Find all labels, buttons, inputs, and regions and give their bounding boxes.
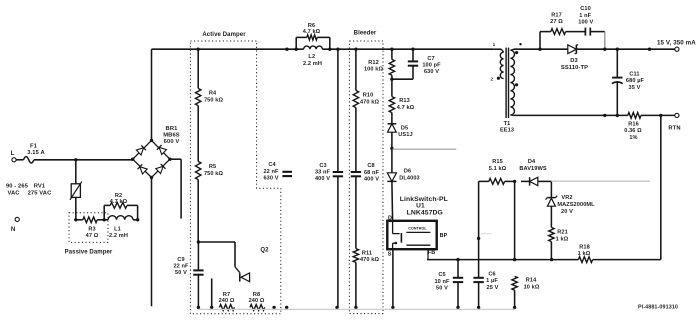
svg-text:LNK457DG: LNK457DG: [407, 210, 443, 217]
svg-text:R15: R15: [492, 159, 503, 165]
svg-text:22 nF: 22 nF: [263, 169, 279, 175]
svg-text:RV1: RV1: [34, 184, 46, 190]
resistor R21 1 k: [549, 206, 569, 259]
svg-text:MB6S: MB6S: [163, 132, 180, 138]
varistor RV1 275 VAC: [28, 160, 82, 220]
svg-text:EE13: EE13: [500, 128, 514, 134]
svg-text:25 V: 25 V: [487, 285, 499, 291]
svg-text:470 kΩ: 470 kΩ: [360, 100, 379, 106]
node RV1 to damper: [74, 218, 77, 221]
svg-text:5.1 kΩ: 5.1 kΩ: [489, 166, 507, 172]
svg-text:C8: C8: [367, 163, 374, 169]
pin label FB: [428, 250, 435, 256]
svg-text:50 V: 50 V: [175, 270, 187, 276]
pin label S: [388, 251, 392, 257]
transistor Q2: [198, 242, 269, 282]
svg-text:R16: R16: [628, 121, 639, 127]
resistor R6 4.7 k (parallel L2): [296, 23, 330, 49]
active damper dashed box: [190, 41, 280, 314]
svg-text:MAZS2000ML: MAZS2000ML: [557, 202, 595, 208]
resistor R2 4.7 k (parallel L1): [104, 193, 137, 220]
capacitor C11 680 uF 35 V: [612, 49, 645, 115]
svg-text:240 Ω: 240 Ω: [249, 298, 265, 304]
op-amp U1 LinkSwitch-PL IC body: [387, 221, 436, 249]
svg-text:20 V: 20 V: [561, 209, 573, 215]
node R15/D4 junction: [513, 180, 516, 260]
label Passive Damper: [65, 250, 113, 256]
drain net faint wire: [392, 148, 456, 150]
node FB/R14: [513, 258, 516, 261]
svg-text:100 kΩ: 100 kΩ: [364, 67, 383, 73]
svg-text:R6: R6: [308, 23, 315, 29]
capacitor C4 22 nF 630 V: [263, 162, 292, 181]
wire stub below Q2: [210, 278, 213, 309]
svg-text:C11: C11: [629, 71, 639, 77]
svg-text:RTN: RTN: [668, 126, 680, 132]
node rail/C7: [411, 48, 414, 51]
node rail/C3: [336, 48, 339, 51]
wire bridge bottom down: [151, 177, 153, 306]
label input voltage range: [6, 184, 29, 197]
node C9 to ground rail: [197, 306, 200, 309]
snubber R17 27 ohm + C10 1 nF: [540, 6, 605, 49]
svg-text:CONTROL: CONTROL: [408, 226, 427, 230]
svg-text:R13: R13: [399, 98, 410, 104]
resistor R7 240 ohm (in source return rail): [219, 292, 235, 311]
diode D5 US1J (clamp, pointing up): [388, 113, 413, 149]
drawing number: [638, 304, 678, 310]
node C4 bottom: [285, 306, 288, 309]
svg-text:R7: R7: [223, 292, 230, 298]
svg-text:10 nF: 10 nF: [434, 279, 450, 285]
terminal L (line input): [11, 150, 16, 162]
svg-text:DL4003: DL4003: [399, 175, 420, 181]
svg-text:R18: R18: [579, 244, 590, 250]
svg-text:1%: 1%: [629, 135, 637, 141]
capacitor C9 22 nF: [173, 242, 203, 307]
svg-text:C3: C3: [319, 163, 326, 169]
svg-text:3.15 A: 3.15 A: [27, 150, 45, 156]
node return/C11 area: [603, 114, 619, 117]
svg-text:27 Ω: 27 Ω: [550, 19, 563, 25]
svg-text:2.2 mH: 2.2 mH: [303, 61, 322, 67]
wire source pin down: [391, 249, 394, 309]
node rail/R6 right: [328, 48, 331, 51]
svg-text:R17: R17: [551, 13, 562, 19]
terminal RTN: [668, 113, 680, 131]
wire output sense drop: [660, 115, 662, 259]
svg-text:L: L: [11, 150, 15, 157]
resistor R11 470 k (bleeder): [353, 249, 379, 309]
svg-text:33 nF: 33 nF: [315, 169, 331, 175]
svg-text:240 Ω: 240 Ω: [219, 298, 235, 304]
svg-text:1 nF: 1 nF: [579, 13, 591, 19]
output return rail: [514, 114, 675, 116]
node rail/R4: [197, 48, 200, 51]
svg-text:R5: R5: [209, 164, 216, 170]
node FB/C5: [456, 258, 459, 261]
svg-text:600 V: 600 V: [164, 139, 180, 145]
svg-text:1: 1: [493, 42, 496, 47]
node junction at RV1 tap: [74, 158, 77, 161]
node R21/FB: [550, 258, 553, 261]
resistor R18 1 k (in FB line): [578, 244, 593, 262]
capacitor C5 10 nF 50 V: [434, 260, 463, 309]
svg-text:400 V: 400 V: [315, 176, 330, 182]
svg-text:BAV19WS: BAV19WS: [519, 166, 546, 172]
svg-text:2.2 mH: 2.2 mH: [109, 233, 128, 239]
svg-text:1 kΩ: 1 kΩ: [578, 251, 591, 257]
svg-text:35 V: 35 V: [629, 85, 641, 91]
svg-text:Active Damper: Active Damper: [202, 32, 246, 38]
node output rail: [648, 48, 651, 51]
svg-text:R12: R12: [368, 60, 379, 66]
label R12 100 k: [364, 60, 383, 73]
svg-text:U1: U1: [416, 203, 425, 210]
terminal N (neutral input): [11, 217, 19, 233]
svg-text:VAC: VAC: [7, 190, 20, 196]
resistor R12 100 k (clamp): [389, 49, 394, 75]
svg-text:R8: R8: [253, 292, 260, 298]
svg-text:L2: L2: [308, 54, 315, 60]
svg-text:4.7 kΩ: 4.7 kΩ: [397, 105, 415, 111]
svg-text:1 kΩ: 1 kΩ: [556, 236, 569, 242]
node rail/C4: [285, 48, 288, 51]
node rail/R12: [390, 48, 393, 51]
resistor R3 47 ohm (damper): [76, 217, 104, 239]
svg-text:R4: R4: [209, 91, 217, 97]
resistor R8 240 ohm (in source return rail): [249, 292, 265, 311]
svg-text:275 VAC: 275 VAC: [28, 190, 53, 196]
svg-text:4.7 kΩ: 4.7 kΩ: [110, 199, 128, 205]
svg-text:D3: D3: [570, 58, 578, 64]
svg-text:C10: C10: [580, 6, 591, 12]
resistor R5 750 k: [196, 106, 224, 242]
svg-text:750 kΩ: 750 kΩ: [204, 97, 223, 103]
B+ top rail: [152, 48, 494, 50]
svg-text:Passive Damper: Passive Damper: [65, 250, 113, 256]
svg-text:PI-4881-091310: PI-4881-091310: [638, 304, 678, 310]
svg-text:BR1: BR1: [166, 126, 179, 132]
resistor R13 4.7 k: [389, 75, 414, 112]
svg-text:47 Ω: 47 Ω: [86, 233, 99, 239]
svg-text:R21: R21: [557, 229, 568, 235]
svg-text:Q2: Q2: [260, 248, 269, 254]
inductor L2 2.2 mH (in rail): [303, 46, 322, 67]
svg-text:SS110-TP: SS110-TP: [561, 65, 588, 71]
svg-text:630 V: 630 V: [424, 69, 439, 75]
svg-text:750 kΩ: 750 kΩ: [204, 171, 223, 177]
svg-text:10 kΩ: 10 kΩ: [524, 285, 540, 291]
svg-text:D4: D4: [528, 159, 536, 165]
fuse F1 3.15 A: [16, 144, 45, 163]
diode D6 DL4003 (series, pointing down): [387, 148, 419, 220]
svg-text:C7: C7: [427, 56, 434, 62]
svg-text:0.36 Ω: 0.36 Ω: [624, 128, 642, 134]
svg-text:680 µF: 680 µF: [626, 78, 645, 84]
output positive rail: [514, 48, 675, 50]
svg-text:100 V: 100 V: [578, 20, 593, 26]
capacitor C8 68 nF 400 V (bleeder): [351, 108, 380, 249]
svg-text:15 V, 350 mA: 15 V, 350 mA: [657, 39, 696, 46]
svg-text:N: N: [11, 226, 16, 233]
wire bridge right vertex down (AC return): [170, 159, 181, 218]
bridge rectifier BR1 MB6S 600 V: [131, 126, 180, 179]
svg-text:T1: T1: [504, 121, 511, 127]
svg-text:FB: FB: [428, 250, 435, 256]
capacitor C3 33 nF 400 V (bus): [315, 49, 343, 309]
svg-text:100 pF: 100 pF: [422, 62, 441, 68]
wire bridge top to B+ rail: [151, 49, 153, 140]
node return sense: [659, 114, 662, 117]
node rail/R6 left: [295, 48, 298, 51]
svg-text:S: S: [388, 251, 392, 257]
bleeder dashed box: [349, 41, 383, 314]
inductor L1 2.2 mH: [104, 216, 137, 239]
svg-text:470 kΩ: 470 kΩ: [360, 257, 379, 263]
ground return faint rail: [198, 308, 514, 310]
svg-text:90 - 265: 90 - 265: [6, 184, 29, 190]
node drain net: [390, 147, 393, 150]
transformer T1 EE13: [490, 42, 521, 134]
node R5/C9/Q2 base: [197, 240, 200, 243]
node rail/R10: [354, 48, 357, 51]
svg-text:L1: L1: [114, 227, 121, 233]
node damper/L1 left: [103, 218, 106, 221]
wire FB pin stub: [427, 249, 429, 260]
node snubber right: [603, 48, 606, 51]
resistor R10 470 k (bleeder): [353, 49, 379, 107]
node snubber left: [538, 48, 541, 51]
svg-text:C5: C5: [438, 272, 445, 278]
resistor R4 750 k: [196, 49, 224, 105]
wire fuse to bridge left vertex: [34, 159, 133, 161]
bias net faint continuation: [551, 180, 650, 182]
BP net faint stub: [481, 233, 492, 235]
svg-text:C4: C4: [268, 162, 276, 168]
resistor R14 10 k: [512, 276, 540, 309]
zener VR2 MAZS2000ML 20 V: [546, 181, 596, 214]
feedback net line: [427, 259, 661, 261]
svg-text:D5: D5: [401, 125, 408, 131]
svg-text:Bleeder: Bleeder: [354, 31, 377, 37]
node clamp R12/C7 junction: [390, 78, 393, 81]
svg-text:2: 2: [490, 76, 493, 81]
svg-text:BP: BP: [440, 233, 448, 239]
pin label D: [388, 215, 392, 221]
svg-text:VR2: VR2: [561, 195, 572, 201]
node C11 top: [616, 48, 619, 51]
svg-text:US1J: US1J: [398, 132, 412, 138]
node L1/R2 right: [136, 218, 139, 221]
label LinkSwitch-PL U1 LNK457DG: [400, 196, 448, 217]
svg-text:400 V: 400 V: [364, 176, 379, 182]
capacitor C6 1 uF 25 V (bias/BP branch): [473, 181, 498, 309]
svg-text:1 µF: 1 µF: [486, 278, 498, 284]
terminal output 15V 350mA: [657, 39, 696, 51]
node rail after R8: [272, 306, 275, 309]
svg-text:D6: D6: [404, 168, 411, 174]
diode D3 SS110-TP (output rectifier): [561, 45, 588, 71]
passive damper dashed box: [69, 213, 108, 243]
svg-text:50 V: 50 V: [436, 285, 448, 291]
svg-text:68 nF: 68 nF: [364, 170, 380, 176]
svg-text:R11: R11: [362, 250, 372, 256]
svg-text:C9: C9: [177, 257, 184, 263]
svg-text:R14: R14: [526, 278, 537, 284]
pin label BP: [440, 233, 448, 239]
svg-text:C6: C6: [488, 272, 495, 278]
label Active Damper: [202, 32, 246, 38]
svg-text:R10: R10: [363, 93, 374, 99]
svg-text:22 nF: 22 nF: [173, 263, 189, 269]
resistor R16 0.36 ohm 1% (CS): [624, 113, 642, 142]
capacitor C7 100 pF 630 V (clamp): [392, 49, 441, 79]
node BP wire: [477, 237, 480, 240]
label Bleeder: [354, 31, 377, 37]
resistor R15 5.1 k (bias): [479, 159, 515, 184]
svg-text:4.7 kΩ: 4.7 kΩ: [303, 29, 321, 35]
svg-text:F1: F1: [30, 144, 38, 150]
diode D4 BAV19WS (pointing left): [519, 159, 551, 186]
svg-text:R3: R3: [88, 227, 95, 233]
svg-text:630 V: 630 V: [263, 175, 278, 181]
